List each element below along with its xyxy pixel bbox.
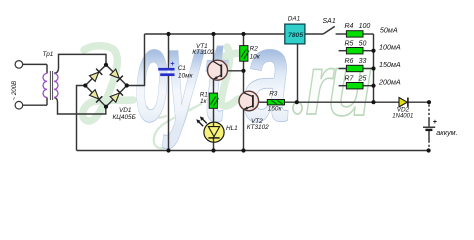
svg-text:R6: R6 [345,58,354,65]
svg-text:VD2: VD2 [397,107,410,114]
wire: R2 bottom / VT2 collector [243,61,245,93]
battery plates [423,126,435,128]
wire: battery bottom dashed [428,141,430,149]
winding primary [43,73,47,97]
svg-text:50: 50 [359,40,367,47]
wire: VT2 emitter to bottom rail [243,109,245,150]
svg-text:25: 25 [358,75,367,82]
node bridge AC2 [104,105,108,109]
capacitor C1 plates [158,69,174,75]
svg-text:R7: R7 [345,75,355,82]
winding secondary [54,73,58,97]
diode VD1 bottom-right [110,89,123,102]
resistor R5 [346,48,363,54]
resistor R2 [240,46,249,62]
wire: R1 to HL1 [213,108,215,122]
svg-text:R4: R4 [345,23,354,30]
node bridge plus [125,83,129,87]
svg-text:+: + [433,119,437,126]
wire: bottom rail [77,150,429,152]
svg-text:33: 33 [359,58,367,65]
blue serif watermark oyta (background) [135,1,372,150]
wire: R5 contact stub [339,50,347,52]
wire: VT1 emitter to R1 [213,79,215,93]
wire: R6 contact stub [339,68,347,70]
wire: mains terminal top to primary [23,63,47,65]
svg-text:Тр1: Тр1 [43,51,54,58]
svg-text:150мА: 150мА [379,60,401,69]
svg-text:150к: 150к [268,106,283,113]
svg-text:100: 100 [359,23,371,30]
transformer Tr1 windings [43,73,58,97]
wire: DA1 ground lead [297,44,299,102]
node R5 right [371,49,375,53]
wire: C1 bottom [168,76,170,151]
node bridge AC1 [104,63,108,67]
wire: VT1 collector [213,34,215,61]
green script watermark J (background) [83,46,241,149]
node battery minus rail [427,148,431,152]
wire: C1 top [168,34,170,68]
svg-text:1N4001: 1N4001 [392,114,413,120]
HL1 emission arrows [196,116,207,126]
svg-text:КЦ405Б: КЦ405Б [113,114,136,121]
node R2 top [241,32,245,36]
node battery plus [427,100,431,104]
node VT2 emitter rail [241,148,245,152]
bridge rectifier VD1 diodes [89,69,123,103]
svg-text:10мк: 10мк [178,73,193,80]
svg-text:аккум.: аккум. [436,128,457,137]
node VT1 collector [211,32,215,36]
wire: secondary top lead to bridge AC1 [54,54,106,73]
wire: secondary bottom lead to bridge AC2 [54,97,106,114]
svg-text:~ 200В: ~ 200В [11,81,18,101]
resistor R4 [346,31,363,37]
node C1 top [166,32,170,36]
wire: DA1 out to switch [305,33,323,35]
node bridge minus [83,83,87,87]
diode VD1 bottom-left [89,89,102,102]
resistor R1 [209,93,218,108]
svg-text:R2: R2 [250,45,259,52]
svg-text:7805: 7805 [288,32,303,39]
resistor R6 [346,65,363,71]
wire: VT2 base to R3 [253,101,267,103]
svg-text:200мА: 200мА [378,78,401,87]
wire: R4 right to bus [363,33,374,35]
resistor R3 [267,100,284,105]
node R7 right [371,84,375,88]
wire: output node R3 to VD2 to battery [285,101,430,103]
node bus to output [371,100,375,104]
switch SA1 blade [323,26,335,34]
wire: R7 contact stub [339,85,347,87]
transistor VT2 [239,91,259,111]
diode VD1 top-right [110,69,123,82]
wire: R5 right [363,50,374,52]
wire: VT1 base lead [221,70,243,72]
svg-text:SA1: SA1 [323,18,336,25]
wire: R7 right [363,85,374,87]
transistor VT1 [208,60,228,80]
wire: battery top solid [428,119,430,127]
wire: R2 top [243,34,245,46]
svg-text:DA1: DA1 [288,16,301,23]
wire: R6 right [363,68,374,70]
wire: battery top dashed [428,105,430,119]
wire: right bus [373,34,375,102]
terminal X1 mains top [15,61,23,69]
svg-text:+: + [170,61,174,68]
transformer core [50,71,52,100]
wire: top rail [145,33,285,35]
svg-text:R3: R3 [269,91,278,98]
wire: bridge plus up to top rail [127,34,145,86]
wire: primary top lead [46,64,48,73]
LED HL1 [196,116,224,142]
diode VD2 [399,98,408,107]
svg-text:10к: 10к [250,54,261,61]
svg-text:HL1: HL1 [226,125,238,132]
svg-text:КТ3102: КТ3102 [247,124,269,131]
svg-text:VD1: VD1 [119,107,132,114]
wire: bridge diamond [85,65,127,107]
svg-text:КТ3102: КТ3102 [192,49,214,56]
svg-text:1к: 1к [200,98,208,105]
wire: bridge minus to bottom rail [77,86,86,151]
wire: primary bottom lead [46,97,48,105]
green serif watermark .ru (background) [293,36,372,134]
terminal X2 mains bottom [15,101,23,109]
voltage regulator DA1 7805 [285,24,305,44]
wire: battery bottom solid [428,131,430,141]
node R6 right [371,66,375,70]
diode VD1 top-left [89,69,102,82]
node DA1 gnd / output sense [295,100,299,104]
node C1 bottom rail [166,148,170,152]
node VT1 base / R2 / VT2 collector [241,69,245,73]
wire: mains terminal bottom to primary [23,104,47,106]
svg-text:100мА: 100мА [379,43,401,52]
node HL1 bottom rail [211,148,215,152]
resistor R7 [346,83,363,89]
svg-text:R5: R5 [345,40,354,47]
wire: SA1 contact stub to R4 [336,33,347,35]
svg-text:C1: C1 [178,65,187,72]
svg-text:50мА: 50мА [380,26,398,35]
wire: HL1 to bottom rail [213,142,215,150]
